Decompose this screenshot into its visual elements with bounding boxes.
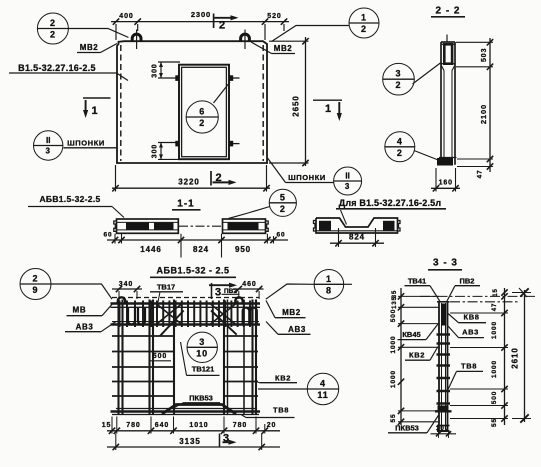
svg-text:3: 3 [396, 69, 402, 79]
svg-text:КВ45: КВ45 [402, 330, 420, 339]
svg-text:460: 460 [242, 281, 256, 288]
svg-text:ТВ8: ТВ8 [461, 361, 477, 370]
svg-text:60: 60 [103, 232, 112, 239]
svg-text:МВ: МВ [72, 306, 86, 315]
svg-text:60: 60 [276, 232, 285, 239]
svg-text:824: 824 [349, 233, 365, 242]
svg-text:ТВ41: ТВ41 [408, 276, 426, 285]
svg-text:100: 100 [436, 425, 450, 432]
svg-text:АБВ1.5-32-2.5: АБВ1.5-32-2.5 [39, 194, 100, 204]
svg-text:503: 503 [481, 48, 488, 62]
svg-text:3: 3 [215, 287, 222, 299]
svg-text:3 - 3: 3 - 3 [433, 258, 458, 269]
svg-text:2: 2 [361, 24, 367, 34]
svg-text:2: 2 [199, 118, 205, 128]
svg-text:2300: 2300 [191, 10, 211, 19]
svg-text:1: 1 [91, 105, 98, 117]
svg-text:780: 780 [233, 422, 247, 429]
svg-text:1: 1 [361, 13, 367, 23]
svg-text:20: 20 [267, 422, 277, 429]
svg-text:9: 9 [33, 285, 39, 295]
svg-text:10: 10 [196, 348, 208, 358]
svg-text:3220: 3220 [178, 178, 199, 187]
svg-text:ПВ2: ПВ2 [460, 276, 475, 285]
svg-text:2: 2 [396, 80, 402, 90]
svg-text:3: 3 [345, 182, 350, 191]
svg-text:1000: 1000 [491, 360, 498, 378]
svg-text:1: 1 [326, 274, 332, 284]
svg-text:6: 6 [199, 107, 205, 117]
svg-text:ШПОНКИ: ШПОНКИ [67, 139, 105, 148]
svg-text:3135: 3135 [179, 437, 200, 446]
svg-text:8: 8 [326, 285, 332, 295]
svg-text:МВ2: МВ2 [282, 308, 301, 317]
svg-text:АВ3: АВ3 [288, 325, 306, 334]
svg-text:300: 300 [152, 144, 159, 158]
svg-text:5: 5 [280, 192, 286, 202]
svg-text:824: 824 [193, 245, 209, 254]
svg-text:В1.5-32.27.16-2.5: В1.5-32.27.16-2.5 [18, 63, 96, 73]
svg-text:ПКВ53: ПКВ53 [189, 394, 213, 403]
svg-text:135: 135 [392, 296, 398, 309]
svg-text:ТВ8: ТВ8 [273, 406, 289, 415]
svg-text:АВ3: АВ3 [76, 322, 94, 331]
svg-text:2: 2 [397, 148, 403, 158]
svg-text:2610: 2610 [511, 347, 520, 368]
svg-text:ПКВ53: ПКВ53 [395, 423, 419, 432]
svg-text:МВ2: МВ2 [274, 44, 292, 53]
svg-text:15: 15 [493, 288, 499, 296]
svg-text:780: 780 [126, 422, 140, 429]
svg-text:500: 500 [390, 309, 397, 323]
svg-text:1000: 1000 [390, 370, 397, 388]
svg-text:55: 55 [491, 418, 498, 427]
svg-text:3: 3 [46, 147, 51, 156]
svg-text:520: 520 [267, 13, 281, 20]
svg-text:2: 2 [33, 274, 39, 284]
svg-text:МВ2: МВ2 [80, 43, 98, 52]
svg-text:КВ2: КВ2 [409, 350, 425, 359]
svg-text:1: 1 [325, 103, 332, 115]
svg-text:55: 55 [390, 413, 397, 422]
svg-text:2 - 2: 2 - 2 [435, 6, 460, 17]
svg-text:3: 3 [223, 433, 230, 445]
svg-text:2650: 2650 [292, 95, 301, 116]
svg-text:2100: 2100 [479, 104, 488, 124]
svg-text:Для В1.5-32.27.16-2.5л: Для В1.5-32.27.16-2.5л [339, 198, 442, 208]
svg-text:АВ3: АВ3 [462, 327, 479, 336]
svg-text:II: II [345, 172, 349, 181]
svg-text:500: 500 [491, 391, 498, 405]
svg-text:КВ2: КВ2 [275, 373, 291, 382]
svg-text:500: 500 [153, 353, 167, 360]
svg-text:300: 300 [152, 63, 159, 77]
svg-text:КВ8: КВ8 [464, 312, 480, 321]
svg-text:47: 47 [492, 303, 498, 311]
svg-text:1000: 1000 [491, 321, 498, 339]
svg-text:ШПОНКИ: ШПОНКИ [288, 173, 326, 182]
svg-text:2: 2 [219, 20, 226, 32]
svg-text:1010: 1010 [189, 422, 208, 429]
svg-text:160: 160 [439, 180, 453, 187]
svg-text:47: 47 [477, 169, 484, 178]
svg-text:2: 2 [50, 18, 56, 28]
svg-text:II: II [46, 136, 50, 145]
svg-text:1-1: 1-1 [177, 199, 194, 210]
svg-text:2: 2 [280, 204, 286, 214]
svg-text:15: 15 [102, 422, 112, 429]
svg-text:АБВ1.5-32 - 2.5: АБВ1.5-32 - 2.5 [157, 266, 230, 276]
svg-text:3: 3 [199, 337, 205, 347]
svg-text:400: 400 [119, 13, 133, 20]
svg-text:4: 4 [397, 136, 403, 146]
svg-text:2: 2 [215, 172, 222, 184]
svg-text:2: 2 [50, 30, 56, 40]
svg-text:4: 4 [320, 379, 326, 389]
svg-text:ТВ17: ТВ17 [157, 283, 175, 292]
svg-text:1000: 1000 [390, 335, 397, 353]
svg-text:950: 950 [235, 245, 251, 254]
svg-text:1446: 1446 [140, 245, 161, 254]
svg-text:640: 640 [155, 422, 169, 429]
svg-text:ТВ121: ТВ121 [192, 365, 215, 374]
svg-text:11: 11 [317, 390, 328, 400]
